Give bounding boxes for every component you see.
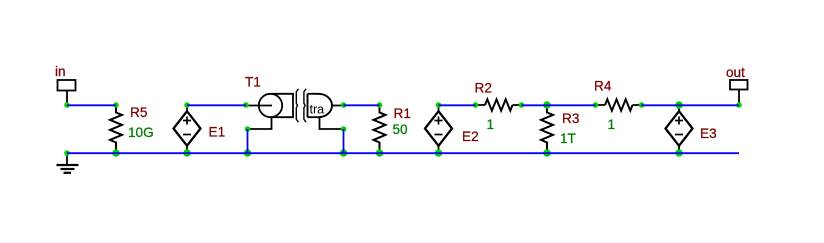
value R3 1T — [560, 131, 576, 146]
wire T1 primary return drop — [247, 129, 249, 153]
label R4 — [594, 79, 612, 94]
node out — [736, 102, 742, 108]
resistor R2 — [476, 99, 522, 110]
junction R5 bottom — [112, 149, 120, 157]
node in — [64, 102, 70, 108]
svg-text:E2: E2 — [462, 129, 479, 144]
svg-text:R3: R3 — [562, 111, 579, 126]
label R2 — [475, 81, 492, 96]
junction R3 bottom — [543, 149, 551, 157]
node E2 top — [436, 102, 442, 108]
junction E2 bottom — [435, 149, 443, 157]
resistor R4 — [596, 99, 642, 110]
node R1 top — [377, 102, 383, 108]
label out — [726, 65, 745, 80]
value R2 1 — [487, 117, 495, 132]
junction R1 bottom — [376, 149, 384, 157]
wire E1 top to T1 left — [187, 104, 246, 106]
transformer T1 — [246, 89, 344, 129]
wire R2 right to R4 left — [522, 104, 596, 106]
junction T1 secondary return — [340, 149, 348, 157]
node R2 right — [519, 102, 525, 108]
svg-text:1: 1 — [608, 117, 616, 132]
wire R4 right to out — [642, 104, 740, 106]
resistor R3 — [541, 105, 553, 153]
resistor R1 — [374, 105, 386, 153]
value R5 10G — [128, 125, 154, 140]
node R2 left — [473, 102, 479, 108]
svg-text:E1: E1 — [209, 125, 226, 140]
wire T1 secondary return drop — [343, 129, 345, 153]
svg-text:T1: T1 — [245, 75, 261, 90]
label T1 — [245, 75, 261, 90]
label E1 — [209, 125, 226, 140]
svg-text:tra: tra — [310, 103, 325, 117]
controlled source E3 — [666, 105, 693, 153]
svg-text:R1: R1 — [394, 106, 411, 121]
ground — [57, 153, 79, 173]
value R4 1 — [608, 117, 616, 132]
node T1 secondary return pin — [341, 126, 347, 132]
port in — [58, 80, 76, 105]
node T1 primary return pin — [245, 126, 251, 132]
junction E3 bottom — [675, 149, 683, 157]
wire T1 right to R1 top — [344, 104, 380, 106]
wire bottom rail — [67, 152, 739, 154]
svg-text:out: out — [726, 65, 745, 80]
node T1 right pin — [341, 102, 347, 108]
node R5 top — [113, 102, 119, 108]
junction T1 primary return — [244, 149, 252, 157]
junction E1 bottom — [183, 149, 191, 157]
label in — [55, 64, 66, 79]
node R4 right — [639, 102, 645, 108]
junction R3 top — [543, 101, 551, 109]
label E3 — [700, 126, 717, 141]
svg-text:R2: R2 — [475, 81, 492, 96]
label E2 — [462, 129, 479, 144]
svg-text:E3: E3 — [700, 126, 717, 141]
svg-text:10G: 10G — [128, 125, 154, 140]
resistor R5 — [110, 105, 122, 153]
node ground — [64, 150, 70, 156]
svg-text:50: 50 — [393, 122, 409, 137]
junction E3 top — [675, 101, 683, 109]
value R1 50 — [393, 122, 409, 137]
node R4 left — [593, 102, 599, 108]
node E1 top — [184, 102, 190, 108]
node T1 left pin — [243, 102, 249, 108]
label R1 — [394, 106, 411, 121]
port out — [730, 80, 748, 105]
label R5 — [130, 105, 147, 120]
svg-text:1T: 1T — [560, 131, 576, 146]
svg-text:1: 1 — [487, 117, 495, 132]
svg-text:R4: R4 — [594, 79, 612, 94]
svg-text:in: in — [55, 64, 66, 79]
controlled source E1 — [174, 105, 201, 153]
controlled source E2 — [425, 105, 452, 153]
wire E2 top to R2 left — [439, 104, 476, 106]
wire in to R5 top — [67, 104, 116, 106]
svg-text:R5: R5 — [130, 105, 147, 120]
label R3 — [562, 111, 579, 126]
